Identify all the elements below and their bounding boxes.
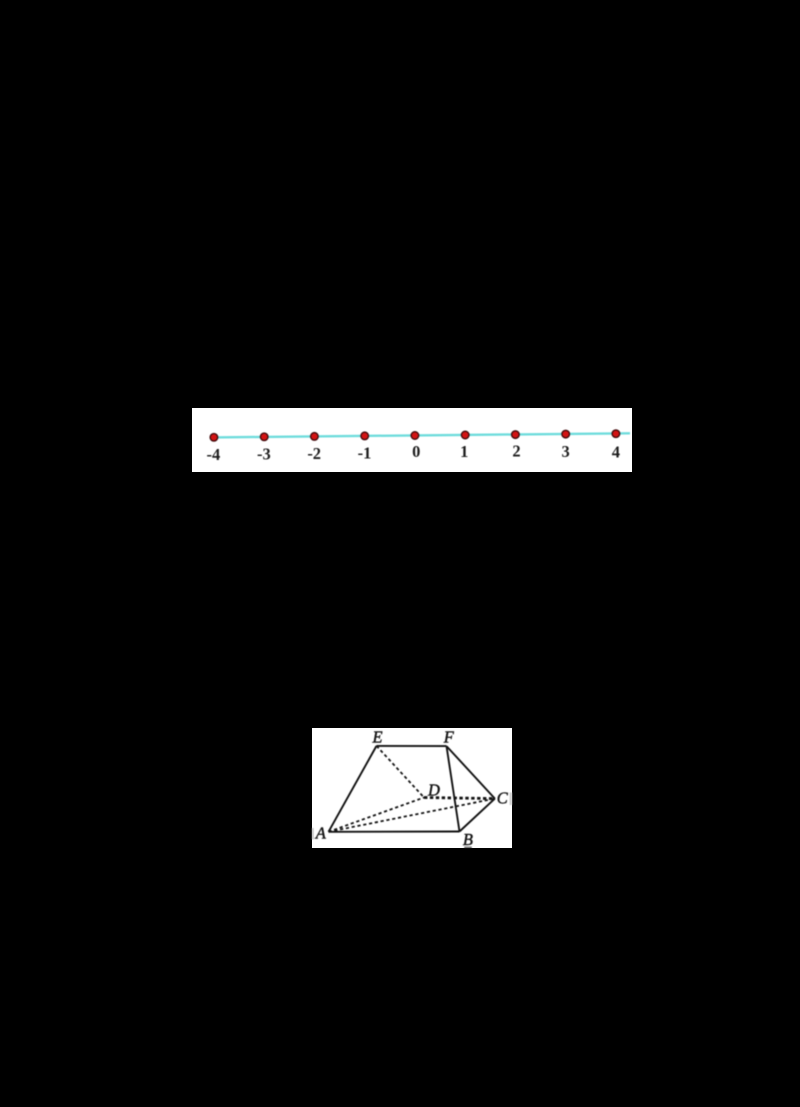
svg-text:-1: -1 (358, 444, 372, 463)
point at 3 (562, 430, 570, 438)
point at 2 (512, 431, 520, 439)
figure 1: number line (192, 408, 632, 472)
edge F-B (446, 746, 459, 831)
point at -2 (311, 433, 319, 441)
number line axis (214, 433, 630, 437)
faint mark at left edge near A (312, 827, 314, 838)
point at -4 (210, 434, 218, 442)
svg-text:4: 4 (612, 443, 620, 462)
faint mark at right edge near C (510, 792, 512, 804)
svg-text:-3: -3 (257, 444, 271, 463)
svg-text:1: 1 (460, 442, 468, 461)
svg-text:-4: -4 (207, 445, 221, 464)
point at 0 (411, 432, 419, 440)
svg-text:E: E (372, 728, 383, 746)
svg-text:D: D (427, 780, 440, 799)
edge A-B (329, 830, 460, 832)
point at 4 (612, 430, 620, 438)
point at 1 (461, 431, 469, 439)
point at -3 (260, 433, 268, 441)
svg-text:F: F (443, 728, 455, 746)
svg-text:2: 2 (512, 441, 520, 460)
svg-text:0: 0 (412, 442, 420, 461)
edge E-F (377, 744, 447, 746)
hidden edge A-D (329, 797, 424, 831)
hidden edge D-C (424, 797, 495, 798)
figure 2: solid EF-ABCD (312, 728, 512, 848)
small mark under B (464, 846, 472, 848)
svg-text:C: C (497, 788, 509, 807)
edge E-A (329, 745, 377, 831)
hidden diagonal A-C (329, 798, 495, 831)
edge F-C (446, 746, 494, 798)
svg-text:-2: -2 (307, 444, 321, 463)
svg-text:B: B (463, 830, 473, 848)
svg-text:A: A (315, 823, 327, 842)
edge B-C (459, 798, 494, 831)
hidden edge E-D (377, 745, 424, 797)
svg-text:3: 3 (561, 442, 569, 461)
point at -1 (361, 432, 369, 440)
